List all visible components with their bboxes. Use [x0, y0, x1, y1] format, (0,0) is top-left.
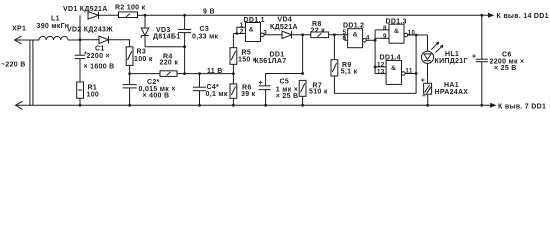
node C4 bottom: [198, 104, 201, 107]
svg-text:39 к: 39 к: [241, 91, 256, 98]
led HL1: [421, 42, 443, 64]
svg-text:VD2 КД243Ж: VD2 КД243Ж: [67, 27, 113, 34]
svg-text:Д814Б1: Д814Б1: [153, 34, 180, 41]
svg-text:10: 10: [408, 30, 416, 37]
svg-text:+: +: [421, 77, 425, 84]
node pins 1-2 tie: [236, 32, 239, 35]
svg-text:100 к: 100 к: [134, 56, 153, 63]
svg-text:× 25 В: × 25 В: [494, 65, 517, 72]
wire bottom rail: [16, 104, 493, 106]
wire DD1.1 out to VD4: [264, 34, 282, 36]
svg-text:0,33 мк: 0,33 мк: [192, 34, 219, 41]
arrow to pin 7 DD1: [490, 103, 496, 108]
svg-text:VD1 КД521А: VD1 КД521А: [63, 6, 108, 13]
svg-text:220 к: 220 к: [160, 60, 179, 67]
wire LED drop: [427, 35, 429, 51]
wire node A down to R7 node: [302, 35, 304, 74]
capacitor C5: [259, 86, 271, 106]
svg-text:К выв. 14 DD1: К выв. 14 DD1: [497, 13, 549, 20]
wire mains pair vertical left: [29, 40, 31, 105]
node R7 top: [301, 72, 304, 75]
resistor R2: [119, 12, 138, 18]
svg-text:–: –: [422, 93, 426, 100]
svg-text:0,1 мк: 0,1 мк: [206, 91, 228, 98]
wire mains pair vertical right: [32, 40, 34, 105]
wire DD1.4 out: [405, 73, 416, 75]
node B junction: [79, 38, 82, 41]
svg-text:&: &: [353, 31, 358, 38]
svg-text:К561ЛА7: К561ЛА7: [255, 58, 287, 65]
node C5 bottom: [264, 104, 267, 107]
svg-text:+: +: [259, 80, 263, 87]
node HA1 bottom: [426, 104, 429, 107]
connector XP1 bottom prong arrow: [16, 101, 23, 109]
wire node B to VD2: [80, 39, 99, 41]
svg-text:2200 ×: 2200 ×: [87, 53, 110, 60]
resistor R9: [331, 60, 338, 94]
capacitor C4: [193, 74, 206, 106]
wire pin 8: [375, 29, 389, 31]
resistor R8: [311, 32, 329, 38]
wire DD1.2 out to tie vertical: [366, 39, 375, 41]
resistor R4: [160, 71, 177, 77]
wire LED to HA1: [427, 63, 429, 83]
capacitor C2: [123, 74, 137, 106]
wire VD4 to node A: [292, 34, 311, 36]
svg-text:&: &: [249, 26, 254, 33]
svg-text:R3: R3: [137, 49, 147, 56]
svg-text:HA1: HA1: [444, 82, 459, 89]
svg-text:8: 8: [383, 25, 387, 32]
node C3 bottom on wire: [183, 45, 186, 48]
svg-text:К выв. 7 DD1: К выв. 7 DD1: [498, 103, 546, 110]
wire outputs tie vertical: [415, 35, 417, 93]
svg-text:XP1: XP1: [12, 26, 26, 33]
svg-text:DD1.1: DD1.1: [244, 17, 265, 24]
svg-text:510 к: 510 к: [309, 89, 328, 96]
svg-text:100: 100: [87, 92, 100, 99]
resistor R6: [230, 74, 237, 106]
inductor L1: [39, 36, 68, 40]
zener VD3: [141, 28, 149, 38]
arrow to pin 14 DD1: [488, 13, 494, 18]
node C6 top: [480, 14, 483, 17]
svg-text:3: 3: [263, 29, 267, 36]
resistor R7: [299, 80, 306, 105]
svg-text:КД521А: КД521А: [270, 24, 298, 31]
svg-text:11 В: 11 В: [207, 68, 223, 75]
svg-text:C5: C5: [280, 78, 290, 85]
svg-text:L1: L1: [51, 16, 60, 23]
wire C3 bottom down to 11V rail: [184, 47, 186, 74]
node C3 top on 9V rail: [183, 14, 186, 17]
wire VD3 top lead: [144, 15, 146, 28]
node R7 bottom: [301, 104, 304, 107]
node C2 bottom: [128, 104, 131, 107]
svg-text:C3: C3: [200, 26, 210, 33]
wire node B up to 9V rail: [79, 15, 81, 40]
svg-text:HL1: HL1: [445, 51, 459, 58]
wire R9 bottom feedback to outputs: [334, 92, 416, 94]
svg-text:2: 2: [240, 28, 244, 35]
svg-text:C4*: C4*: [207, 84, 220, 91]
op gate DD1.3: [389, 24, 408, 43]
capacitor C1: [75, 40, 85, 82]
buzzer HA1: [424, 83, 432, 105]
resistor R3: [126, 47, 133, 74]
wire pin 9: [375, 37, 389, 39]
svg-text:КИПД21Г: КИПД21Г: [435, 58, 468, 65]
svg-text:C2*: C2*: [147, 79, 160, 86]
svg-text:× 400 В: × 400 В: [143, 93, 170, 100]
resistor R1: [77, 82, 84, 105]
resistor R5: [230, 34, 237, 74]
wire L1 to node B: [68, 39, 80, 41]
svg-text:13: 13: [377, 68, 385, 75]
wire 11V rail left segment: [130, 73, 160, 75]
wire VD3 bottom lead: [144, 36, 146, 47]
connector XP1 top prong arrow: [15, 36, 40, 44]
svg-text:НРА24АХ: НРА24АХ: [435, 89, 469, 96]
svg-text:DD1.3: DD1.3: [386, 19, 407, 26]
node R1 bottom: [79, 104, 82, 107]
op gate DD1.4: [386, 60, 405, 84]
svg-text:&: &: [391, 65, 396, 72]
svg-text:~220 В: ~220 В: [1, 62, 26, 69]
node R9 top: [333, 33, 336, 36]
node A: [301, 33, 304, 36]
capacitor C6: [476, 15, 488, 105]
svg-text:&: &: [394, 28, 399, 35]
svg-text:R5: R5: [242, 49, 252, 56]
svg-text:+: +: [472, 54, 476, 61]
svg-text:9: 9: [383, 33, 387, 40]
node VD3/C3 on 11V rail: [183, 72, 186, 75]
node pin 10 branch: [415, 34, 418, 37]
node pin 12 tie: [374, 66, 377, 69]
wire pin 12: [375, 66, 386, 68]
wire VD3 to C3 bottom node: [145, 46, 185, 48]
svg-text:VD4: VD4: [278, 17, 293, 24]
wire DD1.1 pin1 loop: [237, 27, 246, 33]
svg-text:× 1600 В: × 1600 В: [84, 64, 115, 71]
diode VD1: [88, 12, 99, 19]
wire R8 to pins 5 6: [329, 34, 348, 36]
wire VD2 to R3 corner: [109, 40, 130, 47]
node R3 bottom: [128, 72, 131, 75]
svg-text:6: 6: [343, 35, 347, 42]
op gate DD1.1: [246, 23, 265, 42]
svg-text:DD1.4: DD1.4: [380, 55, 401, 62]
wire 9V rail long segment: [185, 14, 489, 16]
node R6 bottom: [232, 104, 235, 107]
wire pin6 tie: [345, 35, 348, 41]
wire DD1.1 pin2: [233, 33, 245, 35]
wire C5 top corner: [266, 74, 303, 86]
capacitor C3: [178, 15, 191, 46]
op gate DD1.2: [348, 29, 367, 48]
wire tie vertical 8 9 12 13: [374, 30, 376, 74]
wire 9V rail R2 to VD3 node: [138, 14, 146, 16]
node R5 R6 on 11V rail: [232, 72, 235, 75]
wire pin 13: [375, 73, 386, 75]
node C6 bottom: [480, 104, 483, 107]
svg-text:R2 100 к: R2 100 к: [115, 4, 146, 11]
svg-text:22 к: 22 к: [311, 28, 326, 35]
wire DD1.3 out: [408, 34, 428, 36]
node VD3 top junction: [144, 14, 147, 17]
svg-text:C1: C1: [95, 46, 105, 53]
wire R9 vertical: [333, 35, 335, 60]
diode VD4: [282, 31, 292, 38]
wire 11V rail R4 to R5 node: [177, 73, 233, 75]
svg-text:R1: R1: [88, 84, 98, 91]
node DD1.2 out tie: [374, 39, 377, 42]
svg-text:5,1 к: 5,1 к: [341, 69, 358, 76]
wire 9V rail VD3 node to C3 node: [145, 14, 185, 16]
wire 9V rail VD1 to R2: [99, 14, 119, 16]
node DD1.4 out: [415, 72, 418, 75]
node C4 top: [198, 72, 201, 75]
diode VD2: [99, 36, 109, 43]
svg-text:390 мкГн: 390 мкГн: [37, 23, 70, 30]
svg-text:9 В: 9 В: [203, 9, 215, 16]
svg-text:× 25 В: × 25 В: [276, 93, 299, 100]
